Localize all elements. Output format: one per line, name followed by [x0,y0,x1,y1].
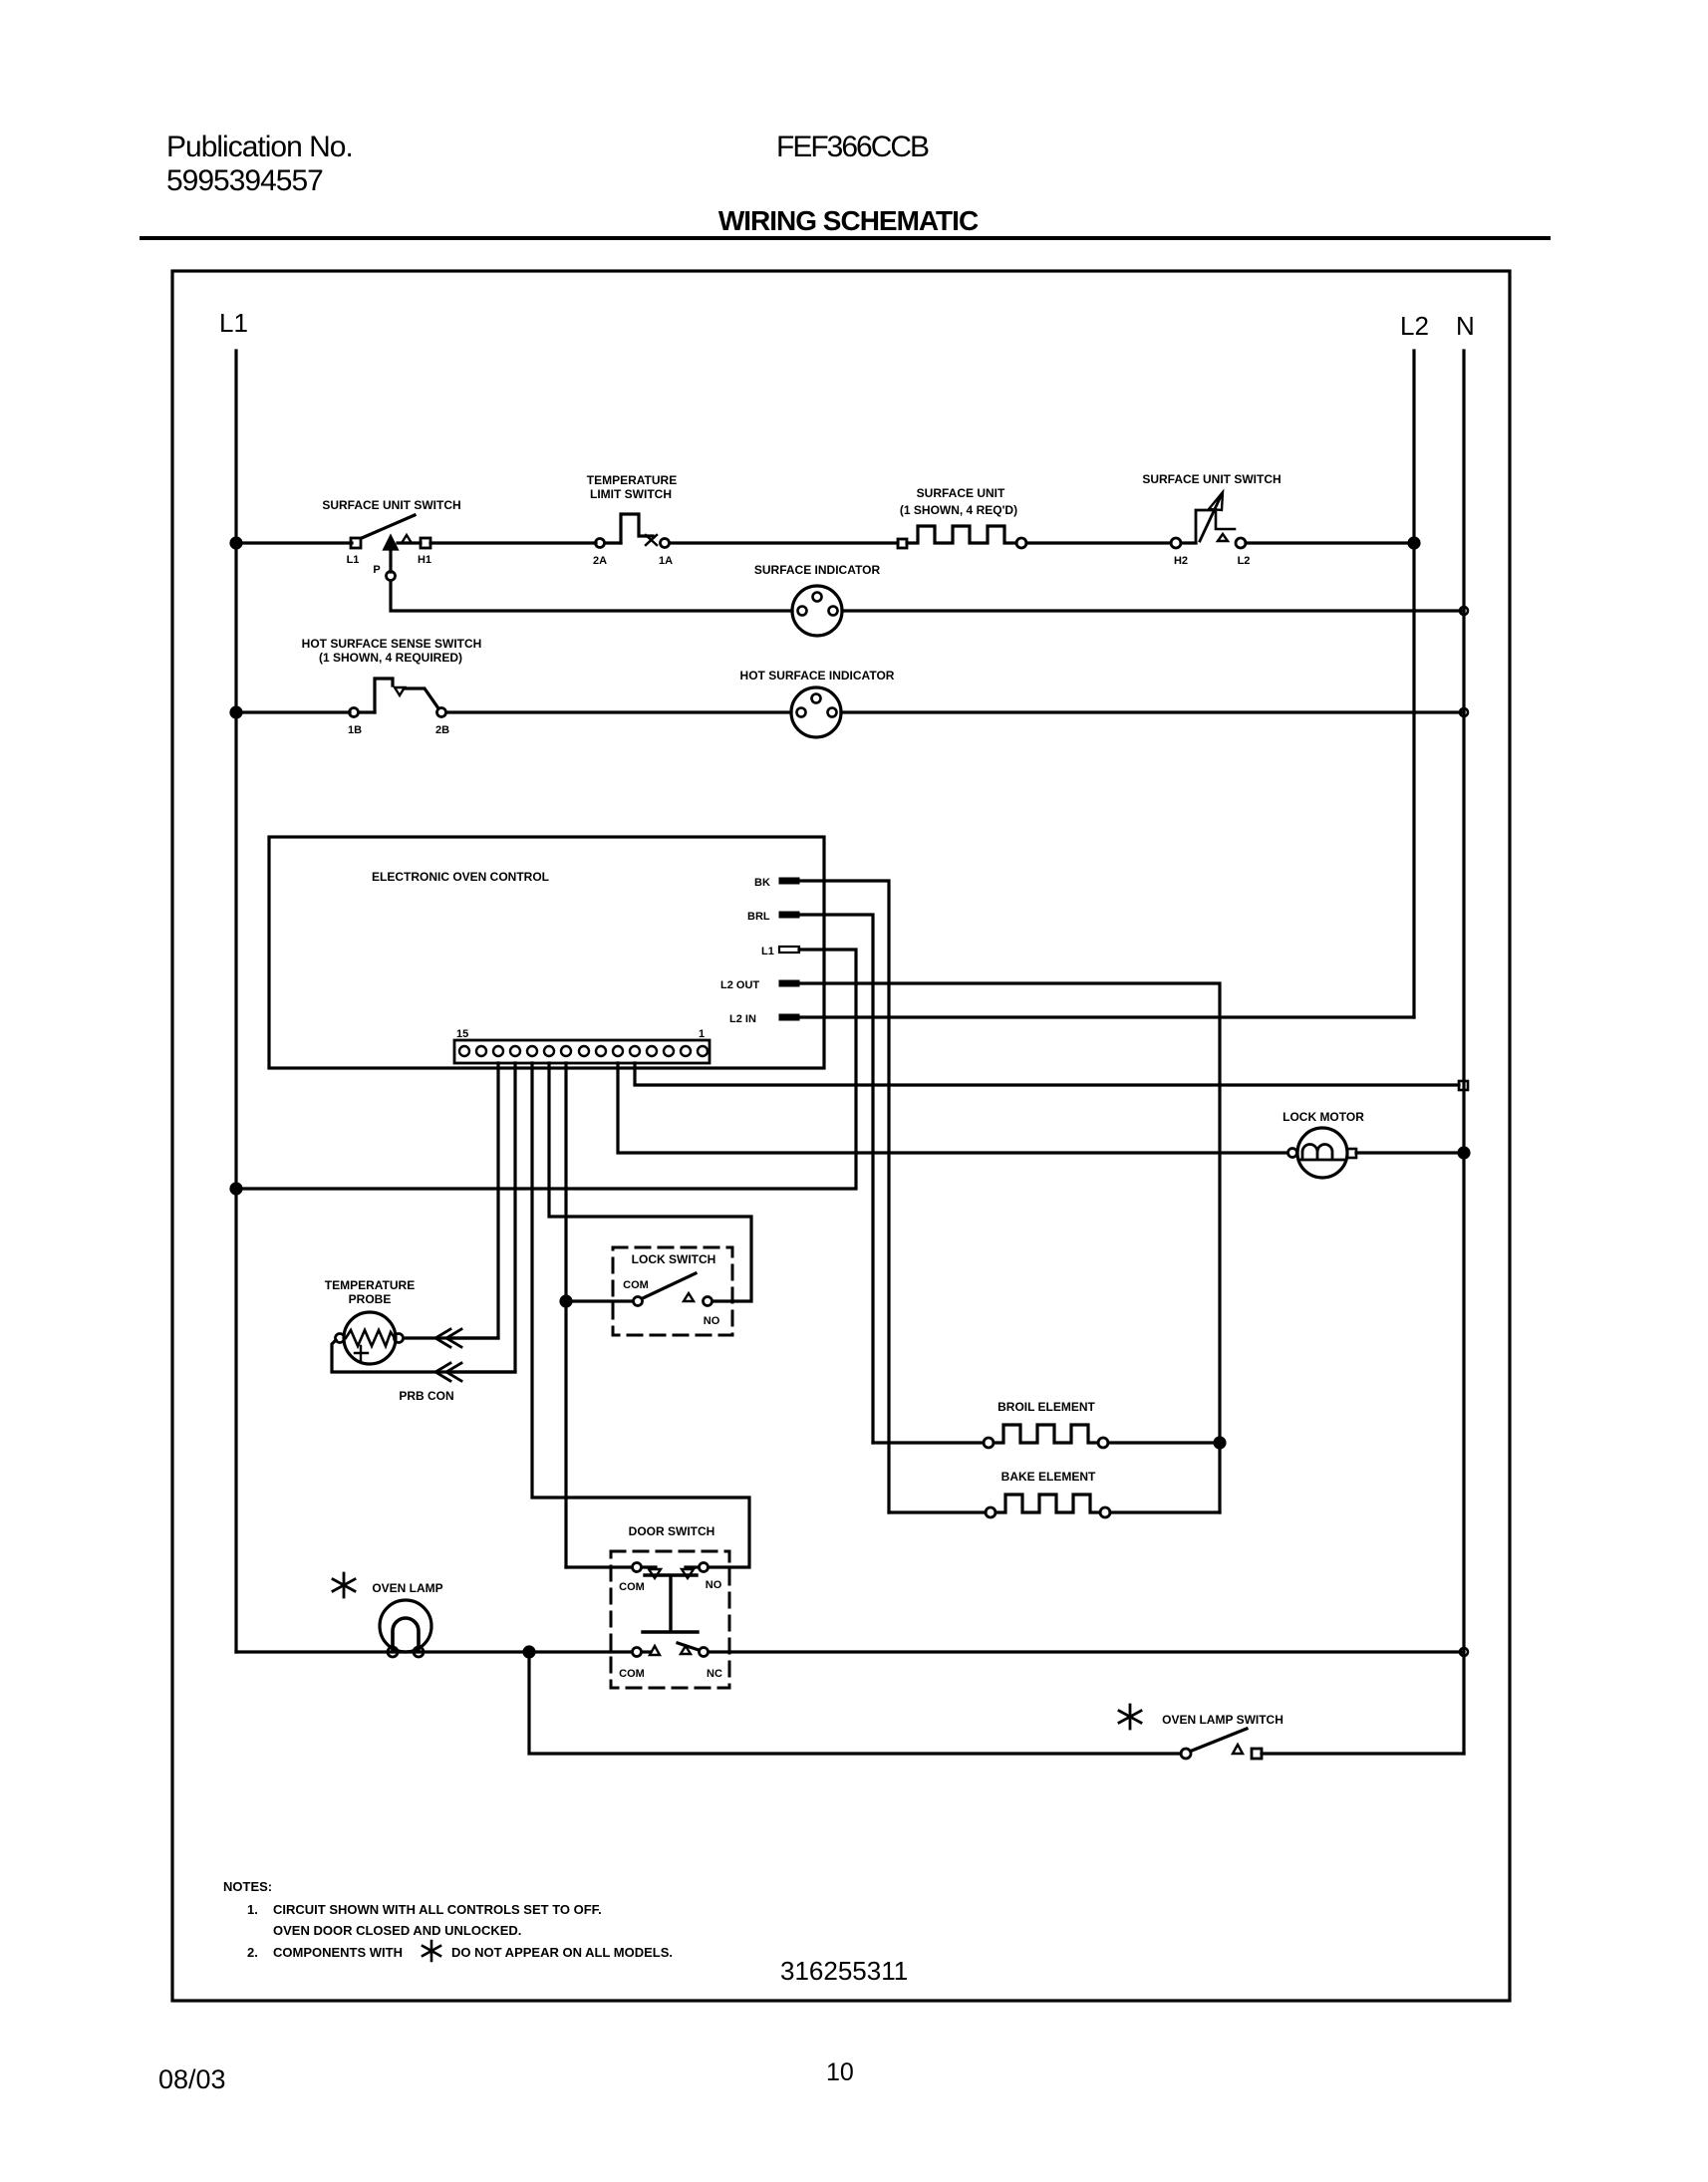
notes block [223,1879,673,1960]
svg-text:L2: L2 [1400,311,1429,341]
oven lamp asterisk [333,1573,355,1597]
surface unit element left terminal [898,539,907,548]
connector chevrons PRB lower [435,1363,461,1381]
svg-text:L2 OUT: L2 OUT [720,979,759,991]
wire L1 rail [234,351,237,1652]
electronic oven control U1 box [269,837,824,1068]
svg-text:NOTES:: NOTES: [223,1879,272,1894]
oven lamp filament loop [393,1618,419,1650]
svg-text:SURFACE UNIT SWITCH: SURFACE UNIT SWITCH [322,498,460,512]
svg-text:DOOR SWITCH: DOOR SWITCH [629,1524,715,1538]
lock switch arm [643,1273,696,1298]
svg-text:CIRCUIT SHOWN WITH ALL CONTROL: CIRCUIT SHOWN WITH ALL CONTROLS SET TO O… [273,1902,602,1917]
wire N rail [1462,351,1465,1754]
surface unit switch SUS1 terminal H1 [421,538,430,548]
wire row1 L2 terminal to L2 rail [1246,541,1414,544]
svg-text:10: 10 [826,2058,854,2086]
temperature probe right terminal [395,1334,404,1343]
node junction dot L1 row probe [231,1184,241,1194]
hot surface sense switch triangle [395,687,405,695]
node junction dot L1 row1 [231,538,241,548]
svg-text:NO: NO [704,1315,720,1327]
surface unit switch SUS2 body [1196,494,1222,543]
door switch S3 dashed box [611,1551,729,1688]
bake element resistor [996,1495,1100,1512]
wire row1 triangle to H1 [398,541,421,544]
door switch lower triangle left [650,1646,660,1655]
door switch upper COM stub [642,1565,656,1568]
wire row1 element to H2 [1026,541,1171,544]
lock motor left terminal [1288,1149,1297,1158]
surface unit switch SUS1 contact triangle [402,535,412,543]
svg-text:COM: COM [623,1279,649,1291]
lock switch COM terminal [634,1297,643,1306]
svg-text:LIMIT SWITCH: LIMIT SWITCH [590,487,672,501]
door switch upper NO terminal [700,1563,709,1572]
svg-text:HOT SURFACE INDICATOR: HOT SURFACE INDICATOR [740,669,895,682]
node dot row2 at N [1460,607,1468,615]
hot surface sense switch terminal 1B [350,708,359,717]
svg-text:COM: COM [619,1581,645,1593]
node junction dot lamp row [524,1647,534,1657]
svg-text:H2: H2 [1174,555,1188,567]
surface unit switch SUS1 pole P arrow [385,537,397,549]
node junction dot motor row at N [1459,1148,1469,1158]
svg-text:NC: NC [707,1668,722,1680]
header rule [140,236,1551,240]
svg-text:PRB CON: PRB CON [399,1389,453,1403]
wire row3 L1 to 1B [236,710,350,713]
wire lamp row from L1 [236,1650,632,1653]
node junction dot L1 row3 [231,707,241,717]
hot surface indicator inner contact top [812,694,821,703]
svg-text:BRL: BRL [747,911,770,923]
node junction dot L2 row1 [1409,538,1419,548]
svg-text:WIRING SCHEMATIC: WIRING SCHEMATIC [718,205,979,236]
svg-text:SURFACE INDICATOR: SURFACE INDICATOR [754,563,881,577]
connector chevrons PRB upper [435,1329,461,1347]
wire NC row to N [709,1650,1461,1653]
svg-text:HOT SURFACE SENSE SWITCH: HOT SURFACE SENSE SWITCH [302,637,482,651]
svg-text:L2 IN: L2 IN [729,1013,756,1025]
door switch upper triangle right [682,1569,694,1578]
wire broil row right [1108,1441,1220,1444]
svg-text:08/03: 08/03 [158,2064,226,2094]
wire broil row left [873,1441,984,1444]
svg-text:BAKE ELEMENT: BAKE ELEMENT [1001,1470,1096,1484]
temperature limit switch terminal 2A [596,539,605,548]
svg-text:SURFACE UNIT SWITCH: SURFACE UNIT SWITCH [1142,472,1281,486]
wire row3 2B to indicator [446,710,791,713]
wire P drop [389,549,392,572]
node junction dot lock switch feed [561,1296,571,1306]
surface unit switch SUS2 arrow head [1209,492,1223,510]
svg-text:BK: BK [754,877,770,889]
wire lock motor to N [1356,1151,1464,1154]
wire row1 L1 to switch [236,541,352,544]
bake element left terminal [986,1507,996,1517]
surface unit element resistor [907,526,1016,543]
svg-text:L1: L1 [347,554,360,566]
wire L1 pin to L1 rail [236,950,856,1189]
oven lamp DS1 body [380,1600,431,1652]
svg-text:NO: NO [706,1579,722,1591]
temperature limit switch body [621,514,653,543]
svg-text:P: P [373,564,380,576]
oven lamp switch arm [1192,1729,1247,1751]
svg-text:OVEN LAMP: OVEN LAMP [372,1581,442,1595]
wire pin12 drop to probe return [453,1063,515,1372]
wire BRL to broil drop [799,915,873,1443]
oven lamp switch terminal left [1181,1749,1191,1759]
oven lamp switch terminal right [1252,1749,1262,1759]
temperature probe RT1 body [344,1312,396,1364]
svg-text:2.: 2. [247,1945,258,1960]
wire pin13 drop to probe [453,1063,498,1338]
border frame [172,271,1510,2001]
svg-text:SURFACE UNIT: SURFACE UNIT [917,486,1005,500]
door switch upper triangle left [649,1569,661,1578]
oven lamp switch asterisk [1119,1705,1141,1729]
wire junction to lock switch COM [566,1299,633,1302]
door switch lower arm [678,1643,699,1650]
door switch upper NO stub [686,1565,699,1568]
svg-text:2A: 2A [593,555,607,567]
wire row1 H1 to 2A [430,541,596,544]
door switch lower COM stub [642,1650,650,1653]
wire P to row2 corner [391,581,792,611]
svg-text:1A: 1A [659,555,673,567]
temperature limit switch contact x [646,535,657,545]
svg-text:OVEN DOOR CLOSED AND UNLOCKED.: OVEN DOOR CLOSED AND UNLOCKED. [273,1923,521,1938]
lock switch S2 dashed box [613,1247,732,1335]
door switch lower COM terminal [633,1648,642,1657]
wire row2 indicator to N [842,609,1464,612]
broil element resistor [994,1425,1098,1443]
svg-text:(1 SHOWN, 4 REQ'D): (1 SHOWN, 4 REQ'D) [900,503,1017,517]
surface indicator inner contact right [829,607,838,616]
pin L2 OUT stub [779,980,799,986]
node dot row3 at N [1460,708,1468,716]
wire 2A to bump [605,541,621,544]
svg-text:LOCK SWITCH: LOCK SWITCH [632,1252,716,1266]
oven lamp left terminal [388,1647,398,1657]
svg-text:FEF366CCB: FEF366CCB [776,131,929,163]
svg-text:OVEN LAMP SWITCH: OVEN LAMP SWITCH [1162,1713,1283,1727]
wire row3 indicator to N [841,710,1464,713]
wire pin11 drop to door switch NO [532,1063,749,1567]
surface unit switch SUS2 terminal H2 [1171,538,1181,548]
wire pin5 drop to N row [635,1063,1459,1085]
bake element right terminal [1100,1507,1110,1517]
wire lamp switch drop [529,1652,1181,1754]
temperature probe tail mark [355,1346,368,1360]
svg-text:N: N [1456,311,1475,341]
svg-text:COM: COM [619,1668,645,1680]
temperature probe left terminal [336,1334,345,1343]
svg-text:TEMPERATURE: TEMPERATURE [325,1278,415,1292]
surface unit element right terminal [1016,538,1026,548]
hot surface sense switch body [375,679,393,712]
wire bake row right [1110,1510,1220,1513]
door switch upper COM terminal [633,1563,642,1572]
svg-text:ELECTRONIC OVEN CONTROL: ELECTRONIC OVEN CONTROL [372,870,549,884]
wire L2 rail [1412,351,1415,1017]
surface unit switch SUS2 terminal L2 [1236,538,1246,548]
node dot NC row at N [1460,1648,1468,1656]
wire door switch upper left [566,1565,632,1568]
temperature limit switch terminal 1A [661,539,670,548]
wire L2 IN to L2 rail [799,1015,1414,1018]
wire 1B to switch [359,710,375,713]
wire bake row left [889,1510,986,1513]
surface unit switch SUS2 landing bar [1216,512,1235,529]
lock motor right terminal [1347,1149,1356,1158]
surface unit switch SUS2 contact triangle [1218,534,1228,541]
wire L2 OUT to elements drop [799,983,1220,1512]
oven lamp switch contact triangle [1233,1745,1243,1754]
wire row1 1A to surface unit [670,541,898,544]
surface unit switch SUS1 arm [362,515,415,538]
surface indicator inner contact top [813,593,822,602]
wire pin6 drop to lock motor row [618,1063,1287,1153]
surface unit switch pilot terminal P [387,572,396,581]
connector strip P1 [454,1040,710,1063]
broil element right terminal [1098,1438,1108,1448]
svg-text:H1: H1 [418,554,431,566]
svg-text:TEMPERATURE: TEMPERATURE [587,473,677,487]
pin BK stub [779,878,799,884]
svg-text:1.: 1. [247,1902,258,1917]
door switch lower triangle right [681,1646,691,1654]
wire lamp switch to N [1262,1752,1464,1755]
hot surface indicator inner contact left [797,708,806,717]
terminal square row 1089 at N [1459,1081,1468,1090]
wire BK to bake drop [799,881,889,1512]
note asterisk [423,1941,440,1961]
surface indicator lamp body [792,586,842,636]
lock motor coil m [1299,1145,1346,1160]
svg-text:BROIL ELEMENT: BROIL ELEMENT [997,1400,1095,1414]
hot surface sense switch terminal 2B [437,708,446,717]
svg-text:LOCK MOTOR: LOCK MOTOR [1282,1110,1364,1124]
svg-text:1: 1 [699,1028,705,1040]
broil element left terminal [984,1438,994,1448]
connector strip pin holes [459,1046,708,1056]
door switch lower NC terminal [700,1648,709,1657]
oven lamp right terminal [414,1647,424,1657]
svg-text:L1: L1 [219,308,248,338]
svg-text:PROBE: PROBE [349,1292,392,1306]
lock motor M1 body [1297,1128,1347,1178]
temperature probe resistor zigzag [346,1330,395,1346]
svg-text:(1 SHOWN, 4 REQUIRED): (1 SHOWN, 4 REQUIRED) [319,651,462,665]
header publication text [166,131,979,236]
lock switch NO terminal [704,1297,712,1306]
svg-text:L2: L2 [1238,555,1251,567]
lock switch NO triangle [684,1293,694,1301]
wire pin9 drop to door switch COM [564,1063,567,1567]
svg-text:2B: 2B [435,724,449,736]
svg-text:316255311: 316255311 [780,1956,908,1986]
svg-text:L1: L1 [761,946,774,957]
hot surface sense switch contact bar [404,688,438,708]
hot surface indicator lamp body [791,687,841,737]
svg-text:5995394557: 5995394557 [166,164,323,197]
svg-text:COMPONENTS WITH: COMPONENTS WITH [273,1945,403,1960]
wire probe left return loop [332,1340,515,1372]
hot surface indicator inner contact right [828,708,837,717]
svg-text:DO NOT APPEAR ON ALL MODELS.: DO NOT APPEAR ON ALL MODELS. [451,1945,673,1960]
wire probe right to chevron [404,1336,498,1339]
svg-text:15: 15 [456,1028,468,1040]
svg-text:1B: 1B [348,724,362,736]
node junction dot broil at L2OUT drop [1215,1438,1225,1448]
door switch actuator tee [643,1575,698,1632]
pin L1 stub open [779,947,799,953]
wire pin10 drop to lock switch NO [549,1063,751,1301]
wire H2 to switch body [1181,541,1196,544]
surface indicator inner contact left [798,607,807,616]
pin BRL stub [779,912,799,918]
svg-text:Publication No.: Publication No. [166,131,353,163]
surface unit switch SUS1 terminal L1 [351,538,361,548]
pin L2 IN stub [779,1014,799,1020]
